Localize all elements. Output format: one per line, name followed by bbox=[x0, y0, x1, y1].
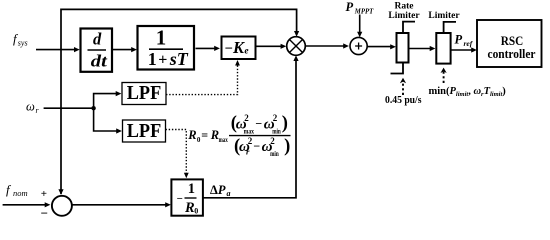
svg-text:+: + bbox=[158, 52, 167, 69]
wire comparator to -1/R0 bbox=[72, 202, 171, 207]
node fsys label bbox=[13, 31, 28, 48]
wire fnom input bbox=[3, 202, 51, 207]
summer + circle bbox=[350, 37, 367, 54]
svg-text:K: K bbox=[232, 38, 245, 57]
label R0 formula bbox=[187, 113, 290, 158]
label min(Plimit, wr Tlimit) bbox=[429, 86, 507, 98]
svg-text:): ) bbox=[284, 137, 290, 157]
wire fsys input bbox=[36, 47, 80, 52]
svg-text:P: P bbox=[346, 0, 354, 14]
block LPF lower bbox=[123, 120, 166, 142]
block limiter bbox=[436, 22, 456, 64]
svg-text:ΔP: ΔP bbox=[210, 183, 226, 197]
multiplier X circle bbox=[287, 37, 306, 56]
block LPF upper bbox=[122, 82, 166, 104]
block RSC controller bbox=[477, 20, 542, 67]
label plus sign bbox=[41, 188, 47, 200]
svg-text:−: − bbox=[41, 206, 48, 221]
svg-text:ref: ref bbox=[464, 39, 474, 48]
svg-text:−: − bbox=[255, 117, 262, 131]
wire multiplier to summer bbox=[305, 43, 349, 48]
label Limiter bbox=[428, 11, 460, 21]
svg-text:dt: dt bbox=[91, 51, 108, 70]
svg-text:P: P bbox=[455, 33, 463, 47]
svg-text:d: d bbox=[93, 30, 102, 49]
wire d/dt to lag block bbox=[113, 47, 137, 52]
svg-text:nom: nom bbox=[13, 188, 28, 198]
svg-text:0: 0 bbox=[197, 136, 201, 144]
svg-text:sys: sys bbox=[18, 39, 28, 48]
svg-text:Limiter: Limiter bbox=[428, 11, 460, 21]
svg-text:−: − bbox=[177, 193, 183, 205]
node wr label bbox=[26, 99, 40, 115]
svg-text:min: min bbox=[272, 126, 281, 135]
svg-text:1: 1 bbox=[156, 26, 167, 50]
wire -Ke to multiplier bbox=[256, 44, 287, 49]
label Rate Limiter bbox=[388, 2, 420, 21]
svg-text:max: max bbox=[244, 126, 255, 135]
dashed wire LPF2 to -1/R0 bbox=[166, 130, 189, 179]
wire wr branch to LPF1 bbox=[94, 91, 122, 108]
svg-text:a: a bbox=[227, 189, 231, 198]
wire limiter to RSC controller bbox=[451, 47, 477, 52]
block rate limiter bbox=[391, 22, 416, 74]
svg-text:LPF: LPF bbox=[127, 120, 162, 142]
node PMPPT label bbox=[346, 0, 374, 15]
dashed setpoint min() into limiter bbox=[441, 68, 447, 83]
svg-text:=: = bbox=[201, 128, 208, 142]
block -Ke bbox=[222, 37, 256, 60]
comparator circle bbox=[52, 196, 72, 216]
wire summer to rate limiter bbox=[367, 44, 396, 49]
block -1/R0 bbox=[171, 179, 203, 216]
svg-text:0: 0 bbox=[194, 206, 198, 215]
block 1/(1+sT) bbox=[138, 26, 195, 70]
svg-text:MPPT: MPPT bbox=[354, 6, 374, 15]
wire lag block to -Ke bbox=[196, 46, 220, 51]
svg-text:): ) bbox=[282, 113, 288, 133]
svg-text:2: 2 bbox=[273, 113, 278, 123]
wire top feedback line bbox=[58, 9, 299, 195]
svg-text:2: 2 bbox=[244, 113, 249, 123]
wire rate limiter to limiter bbox=[409, 46, 436, 51]
svg-text:controller: controller bbox=[488, 46, 536, 61]
label dPa bbox=[210, 183, 231, 198]
wire wr branch to LPF2 bbox=[94, 108, 122, 133]
node fnom label bbox=[6, 182, 28, 198]
svg-text:−: − bbox=[253, 139, 260, 153]
svg-text:ω: ω bbox=[26, 99, 35, 113]
block d/dt bbox=[81, 29, 113, 72]
svg-text:Limiter: Limiter bbox=[388, 11, 420, 21]
wire wr input bbox=[44, 106, 96, 110]
node Pref label bbox=[455, 33, 474, 49]
label minus sign bbox=[41, 206, 48, 221]
dashed setpoint 0.45 pu/s into rate limiter bbox=[385, 78, 422, 106]
svg-text:2: 2 bbox=[248, 136, 253, 146]
svg-text:1: 1 bbox=[188, 181, 195, 197]
svg-text:−: − bbox=[225, 41, 233, 57]
svg-text:2: 2 bbox=[270, 136, 275, 146]
wire -1/R0 to multiplier bbox=[203, 55, 299, 198]
svg-text:sT: sT bbox=[169, 49, 189, 69]
dashed wire LPF1 to -Ke bbox=[166, 60, 240, 95]
svg-text:R: R bbox=[187, 128, 196, 142]
svg-text:LPF: LPF bbox=[127, 82, 162, 104]
wire PMPPT into summer bbox=[357, 15, 362, 38]
svg-text:1: 1 bbox=[148, 49, 157, 69]
svg-text:max: max bbox=[219, 135, 228, 144]
svg-text:+: + bbox=[41, 188, 47, 200]
svg-text:0.45 pu/s: 0.45 pu/s bbox=[385, 95, 422, 106]
svg-text:min: min bbox=[270, 149, 279, 158]
